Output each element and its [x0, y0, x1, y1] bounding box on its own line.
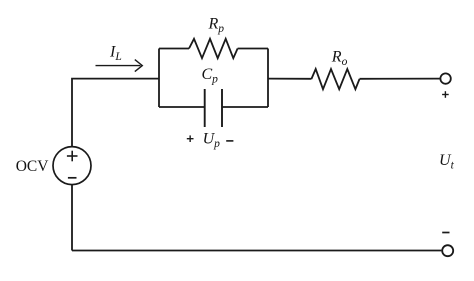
svg-text:Ut: Ut — [439, 152, 455, 172]
wire: R_p left lead — [159, 48, 189, 50]
wire: bottom rail to negative terminal — [72, 250, 441, 252]
node: RC parallel right junction — [267, 49, 269, 108]
polarity - of U_p — [226, 140, 233, 142]
svg-text:Ro: Ro — [331, 49, 348, 69]
voltage source OCV — [53, 147, 91, 185]
node: RC parallel left junction — [158, 49, 160, 108]
svg-text:Up: Up — [203, 131, 221, 151]
svg-text:Cp: Cp — [202, 66, 219, 86]
wire: source negative down to bottom rail — [71, 185, 73, 251]
polarity + at positive terminal — [442, 91, 449, 98]
wire: source positive up to top node and across to RC network — [72, 79, 159, 147]
svg-text:IL: IL — [109, 44, 122, 64]
polarity + of U_p — [187, 135, 194, 142]
resistor R_o — [311, 69, 359, 89]
polarity - at negative terminal — [442, 232, 449, 234]
terminal + (positive output) — [440, 73, 450, 83]
terminal - (negative output) — [442, 245, 453, 256]
current arrow I_L — [96, 60, 143, 72]
wire: R_o to positive terminal — [360, 78, 440, 80]
wire: RC network to R_o — [268, 78, 311, 80]
svg-text:OCV: OCV — [16, 158, 50, 175]
wire: C_p left lead — [159, 106, 205, 108]
wire: C_p right lead — [222, 106, 268, 108]
capacitor C_p — [205, 89, 222, 127]
resistor R_p — [189, 39, 238, 58]
svg-text:Rp: Rp — [208, 16, 225, 36]
wire: R_p right lead — [238, 48, 268, 50]
